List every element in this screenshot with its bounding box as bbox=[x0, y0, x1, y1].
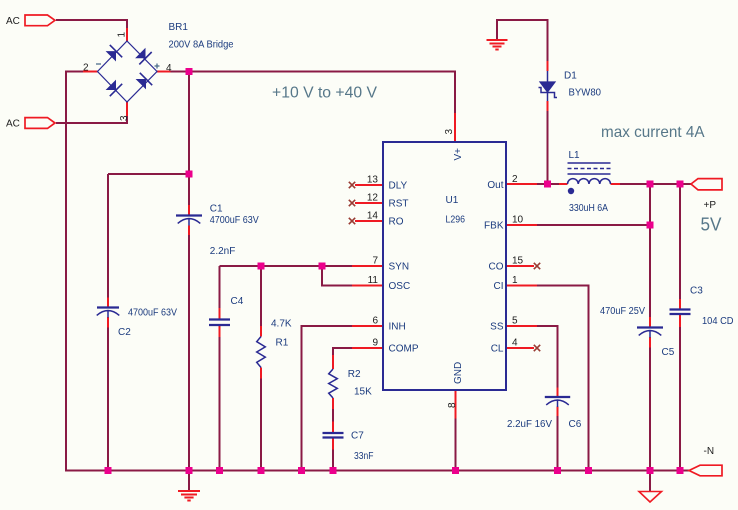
svg-text:C1: C1 bbox=[210, 204, 223, 215]
svg-text:2: 2 bbox=[83, 63, 89, 74]
svg-text:14: 14 bbox=[367, 211, 379, 222]
svg-text:1: 1 bbox=[117, 32, 128, 38]
svg-text:C3: C3 bbox=[690, 286, 703, 297]
svg-text:C7: C7 bbox=[351, 431, 364, 442]
svg-text:U1: U1 bbox=[446, 195, 459, 206]
svg-text:CL: CL bbox=[491, 344, 504, 355]
svg-text:INH: INH bbox=[389, 322, 406, 333]
svg-text:GND: GND bbox=[453, 362, 464, 384]
svg-text:11: 11 bbox=[368, 275, 379, 286]
svg-text:CO: CO bbox=[489, 262, 504, 273]
svg-text:DLY: DLY bbox=[389, 181, 408, 192]
svg-text:CI: CI bbox=[494, 281, 504, 292]
svg-text:-N: -N bbox=[704, 446, 715, 457]
svg-text:L1: L1 bbox=[569, 150, 581, 161]
svg-text:4: 4 bbox=[166, 63, 172, 74]
svg-text:470uF 25V: 470uF 25V bbox=[600, 306, 645, 317]
svg-text:+P: +P bbox=[704, 200, 717, 211]
svg-text:C4: C4 bbox=[231, 296, 244, 307]
svg-text:6: 6 bbox=[372, 316, 378, 327]
svg-text:R2: R2 bbox=[348, 369, 361, 380]
svg-text:2.2uF 16V: 2.2uF 16V bbox=[507, 419, 552, 430]
svg-text:FBK: FBK bbox=[484, 221, 504, 232]
svg-text:12: 12 bbox=[367, 193, 379, 204]
svg-text:104 CD: 104 CD bbox=[702, 316, 734, 327]
svg-text:C2: C2 bbox=[118, 327, 131, 338]
svg-text:330uH 6A: 330uH 6A bbox=[569, 203, 608, 214]
svg-text:4: 4 bbox=[512, 338, 518, 349]
svg-text:4700uF 63V: 4700uF 63V bbox=[210, 215, 259, 226]
svg-text:15K: 15K bbox=[354, 387, 372, 398]
svg-text:COMP: COMP bbox=[389, 344, 419, 355]
svg-text:OSC: OSC bbox=[389, 281, 411, 292]
svg-text:4.7K: 4.7K bbox=[271, 319, 292, 330]
svg-text:8: 8 bbox=[447, 402, 458, 408]
svg-text:BR1: BR1 bbox=[169, 22, 189, 33]
svg-text:15: 15 bbox=[512, 256, 524, 267]
svg-text:D1: D1 bbox=[564, 71, 577, 82]
svg-text:AC: AC bbox=[6, 119, 20, 130]
svg-text:C6: C6 bbox=[569, 419, 582, 430]
svg-text:SS: SS bbox=[490, 322, 504, 333]
svg-text:200V 8A Bridge: 200V 8A Bridge bbox=[169, 40, 234, 51]
svg-text:5: 5 bbox=[512, 316, 518, 327]
svg-text:9: 9 bbox=[372, 338, 378, 349]
svg-text:BYW80: BYW80 bbox=[569, 88, 602, 99]
svg-text:RST: RST bbox=[389, 199, 409, 210]
svg-text:+10 V to +40 V: +10 V to +40 V bbox=[272, 85, 377, 102]
svg-text:7: 7 bbox=[372, 256, 378, 267]
svg-text:3: 3 bbox=[444, 129, 455, 135]
svg-text:4700uF 63V: 4700uF 63V bbox=[128, 308, 177, 319]
svg-text:Out: Out bbox=[487, 180, 503, 191]
svg-text:10: 10 bbox=[512, 215, 524, 226]
svg-text:13: 13 bbox=[367, 175, 379, 186]
svg-text:C5: C5 bbox=[662, 347, 675, 358]
svg-text:33nF: 33nF bbox=[354, 451, 374, 462]
svg-text:SYN: SYN bbox=[389, 262, 410, 273]
svg-text:V+: V+ bbox=[453, 148, 464, 161]
svg-text:2.2nF: 2.2nF bbox=[210, 246, 236, 257]
svg-text:5V: 5V bbox=[701, 215, 722, 235]
svg-text:L296: L296 bbox=[446, 215, 466, 226]
svg-text:max current 4A: max current 4A bbox=[601, 124, 705, 141]
svg-text:3: 3 bbox=[119, 115, 130, 121]
svg-text:RO: RO bbox=[389, 217, 404, 228]
svg-text:1: 1 bbox=[512, 275, 518, 286]
svg-text:AC: AC bbox=[6, 16, 20, 27]
svg-text:2: 2 bbox=[512, 174, 518, 185]
svg-text:R1: R1 bbox=[276, 338, 289, 349]
